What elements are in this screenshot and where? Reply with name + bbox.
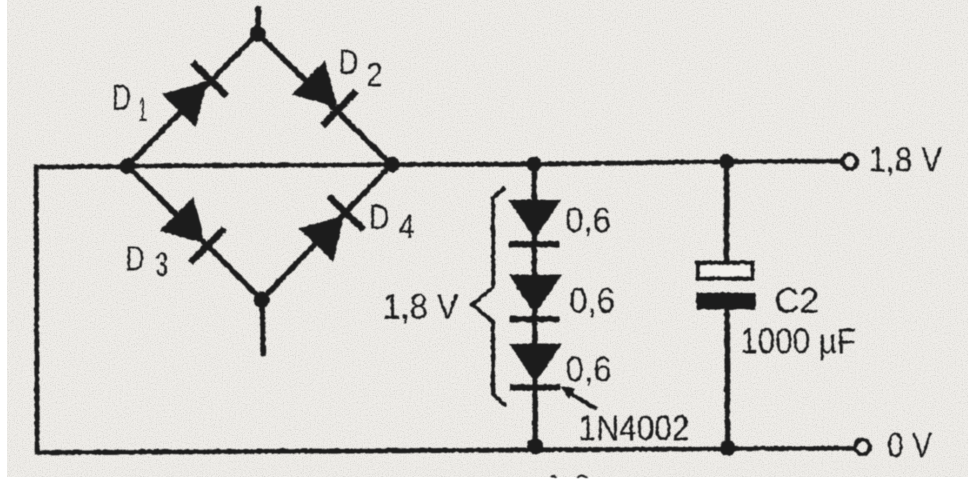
node chain top: [526, 156, 541, 171]
wire bridge upper-left edge: [127, 33, 257, 166]
svg-text:0 V: 0 V: [887, 426, 933, 465]
diode D1: [161, 59, 229, 127]
svg-text:D: D: [125, 239, 144, 278]
node top bridge: [249, 25, 265, 41]
svg-text:1,8 V: 1,8 V: [382, 287, 459, 326]
node left bridge: [119, 158, 135, 174]
svg-text:3: 3: [155, 246, 168, 284]
svg-text:D: D: [338, 43, 358, 82]
svg-text:1: 1: [138, 91, 147, 128]
svg-text:D: D: [369, 198, 389, 237]
capacitor C2 top plate: [697, 262, 752, 278]
svg-text:0,6: 0,6: [565, 201, 611, 240]
label D1: [111, 78, 146, 128]
svg-text:1,8 V: 1,8 V: [868, 140, 942, 179]
wire capacitor vertical bottom: [724, 309, 730, 448]
wire diode chain vertical: [534, 164, 535, 446]
wire top rail: [127, 161, 840, 166]
wire bridge lower-right edge: [261, 164, 391, 299]
svg-text:2: 2: [366, 56, 382, 94]
caption fragment left: [549, 475, 557, 478]
label D4: [369, 198, 415, 246]
label D2: [338, 43, 382, 94]
brace 1,8 V: [472, 188, 505, 404]
svg-text:1000 µF: 1000 µF: [740, 322, 856, 361]
label D3: [125, 239, 168, 284]
terminal 0 V: [855, 439, 870, 454]
node chain bottom: [527, 438, 543, 454]
svg-text:0,6: 0,6: [569, 281, 615, 320]
svg-text:C2: C2: [774, 281, 819, 320]
svg-text:D: D: [111, 78, 131, 117]
wire bridge lower-left edge: [127, 166, 261, 300]
svg-text:0,6: 0,6: [565, 350, 611, 389]
series diode 1 (1N4002): [508, 199, 561, 247]
wire top stub: [257, 8, 258, 33]
wire capacitor vertical top: [723, 161, 728, 262]
diode D3: [159, 197, 227, 265]
node cap bottom rail: [719, 440, 734, 455]
svg-text:1N4002: 1N4002: [578, 409, 689, 448]
svg-text:4: 4: [398, 208, 414, 246]
arrow to 1N4002: [557, 380, 596, 408]
wire bottom stub: [262, 299, 263, 353]
caption fragment right: [575, 474, 588, 477]
wire bridge upper-right edge: [257, 33, 391, 164]
diode D4: [298, 193, 366, 261]
diode D2: [291, 60, 359, 128]
node right bridge: [383, 156, 399, 172]
node cap top rail: [718, 153, 733, 168]
capacitor C2 bottom plate: [696, 292, 755, 309]
series diode 3 (1N4002): [509, 343, 562, 390]
series diode 2 (1N4002): [508, 274, 561, 322]
terminal 1,8 V: [842, 154, 857, 169]
wire left rail: [36, 166, 853, 452]
node bottom bridge: [253, 291, 269, 307]
